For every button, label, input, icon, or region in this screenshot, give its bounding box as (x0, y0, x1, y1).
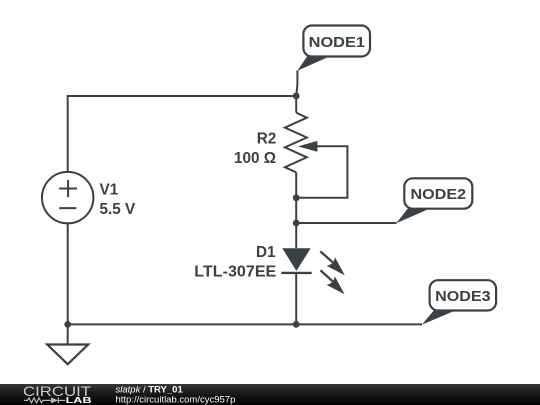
svg-text:http://circuitlab.com/cyc957p: http://circuitlab.com/cyc957p (116, 395, 236, 405)
svg-text:100 Ω: 100 Ω (234, 150, 276, 167)
svg-text:R2: R2 (257, 131, 277, 148)
svg-text:NODE1: NODE1 (309, 35, 365, 51)
svg-text:D1: D1 (256, 244, 276, 261)
svg-text:LAB: LAB (66, 396, 92, 405)
svg-text:5.5 V: 5.5 V (100, 201, 137, 218)
svg-text:NODE2: NODE2 (411, 187, 467, 203)
svg-text:NODE3: NODE3 (435, 289, 491, 305)
svg-text:V1: V1 (100, 181, 119, 198)
svg-text:LTL-307EE: LTL-307EE (194, 264, 276, 281)
